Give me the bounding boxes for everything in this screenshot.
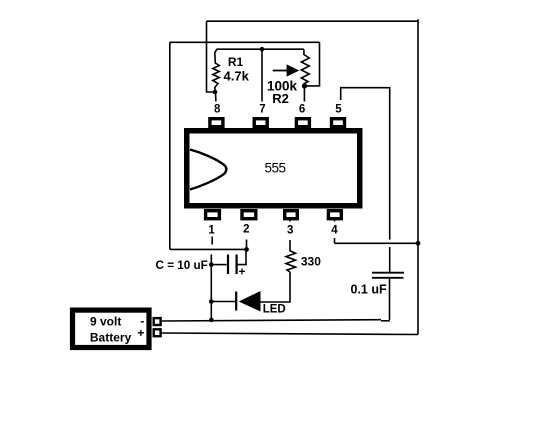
IC pin 7 box xyxy=(254,119,267,127)
wire pin 6 stub xyxy=(303,86,305,117)
LED D1 triangle xyxy=(239,291,261,312)
node R2 bottom junction xyxy=(302,83,307,88)
wire inner top rail pin6 loop xyxy=(170,41,320,43)
wire outer top rail xyxy=(207,20,419,22)
resistor R3 330 xyxy=(286,251,296,272)
IC pin 1 box xyxy=(206,211,220,219)
wire ground vertical xyxy=(210,255,212,320)
svg-text:1: 1 xyxy=(208,225,215,237)
svg-text:4.7k: 4.7k xyxy=(224,69,250,84)
wire pin5 vertical lower segment to cap xyxy=(389,247,391,273)
svg-text:LED: LED xyxy=(263,304,286,316)
wire inner right vertical to R2 bottom xyxy=(304,42,319,86)
pin label 3 xyxy=(285,222,297,241)
wire LED anode horizontal xyxy=(211,301,236,303)
svg-text:Battery: Battery xyxy=(90,331,132,345)
svg-text:7: 7 xyxy=(259,104,265,116)
svg-text:C = 10 uF: C = 10 uF xyxy=(156,259,208,272)
svg-text:R1: R1 xyxy=(228,55,244,69)
svg-text:3: 3 xyxy=(287,225,293,237)
wire pin2 horizontal xyxy=(170,248,247,250)
potentiometer R2 xyxy=(301,49,309,86)
node pin2 junction xyxy=(244,247,249,252)
wire outer left vertical to pin 8 node xyxy=(207,21,216,92)
battery positive terminal xyxy=(154,329,161,336)
svg-text:4: 4 xyxy=(331,225,338,237)
pin label 7 xyxy=(257,102,269,118)
capacitor C1 10uF left plate xyxy=(227,255,229,275)
svg-text:2: 2 xyxy=(243,224,249,236)
svg-text:+: + xyxy=(239,266,246,278)
wire pin 1 stub xyxy=(211,222,213,245)
node ground rail junction xyxy=(209,318,214,323)
wire battery positive rail xyxy=(162,333,418,335)
svg-text:9 volt: 9 volt xyxy=(90,315,121,329)
capacitor C1 10uF left lead xyxy=(211,264,226,266)
wire 0.1uF to ground rail xyxy=(389,278,391,320)
capacitor 0.1uF bottom plate xyxy=(372,277,403,279)
node pin4 Vcc junction xyxy=(416,241,421,246)
svg-text:R2: R2 xyxy=(272,91,289,106)
IC U1 notch xyxy=(190,150,226,190)
wire battery negative rail xyxy=(162,320,381,321)
pin label 8 xyxy=(212,102,224,118)
svg-text:330: 330 xyxy=(301,255,321,269)
wire pin 4 horizontal to Vcc rail xyxy=(335,242,419,244)
svg-text:5: 5 xyxy=(335,104,342,116)
wire inner left vertical pin6-to-pin2 xyxy=(169,42,171,249)
pin label 5 xyxy=(333,100,345,117)
wire 330 down to LED xyxy=(261,272,291,302)
battery BT1 box xyxy=(73,310,150,347)
pin label 4 xyxy=(329,222,341,239)
IC pin 8 box xyxy=(210,119,223,127)
wire pin 5 up and over xyxy=(341,88,390,240)
IC pin 4 box xyxy=(328,211,341,219)
IC U1 555 body xyxy=(187,131,360,206)
svg-text:0.1 uF: 0.1 uF xyxy=(351,282,387,296)
capacitor 0.1uF top plate xyxy=(372,272,404,274)
wire pin 8 stub xyxy=(216,92,217,117)
pin label 6 xyxy=(296,102,308,118)
pin label 1 xyxy=(206,222,218,237)
wire outer right vertical (Vcc rail) xyxy=(417,19,419,334)
R2 wiper arrow xyxy=(273,64,300,76)
svg-text:+: + xyxy=(137,326,144,340)
IC pin 6 box xyxy=(296,119,309,127)
wire pin 3 stub xyxy=(289,221,291,251)
wire pin 4 stub xyxy=(334,221,336,244)
IC pin 3 box xyxy=(285,211,298,219)
IC pin 2 box xyxy=(242,211,256,219)
LED D1 cathode bar xyxy=(235,292,237,311)
wire R1 R2 top rail xyxy=(217,48,304,50)
capacitor C1 10uF right lead xyxy=(237,249,246,264)
IC pin 5 box xyxy=(332,119,345,127)
wire pin 7 vertical xyxy=(261,49,263,117)
resistor R1 xyxy=(213,49,220,92)
pin label 2 xyxy=(241,222,253,240)
node pin7 top junction xyxy=(260,47,265,52)
node LED left junction xyxy=(209,299,214,304)
wire pin 2 stub xyxy=(246,222,248,250)
node cap10uF left junction xyxy=(209,262,214,267)
capacitor C1 10uF right plate xyxy=(236,255,238,275)
svg-text:555: 555 xyxy=(264,161,285,176)
battery negative terminal xyxy=(154,318,161,325)
node R1 bottom junction xyxy=(213,90,218,95)
svg-text:6: 6 xyxy=(299,104,305,116)
svg-text:8: 8 xyxy=(214,104,221,116)
